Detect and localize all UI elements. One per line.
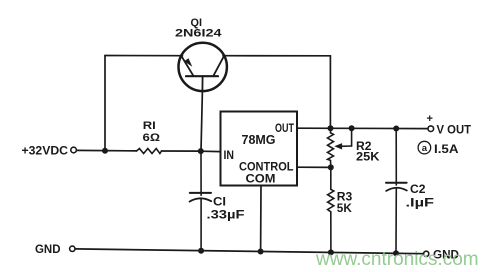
label: V OUT <box>437 125 472 137</box>
potentiometer R2 (zigzag body and leads) <box>328 128 334 167</box>
label: C1 <box>213 197 226 209</box>
label: 5K <box>337 203 353 215</box>
wire: input rail from terminal to R1 <box>77 149 137 152</box>
regulator U1 78MG box <box>221 112 298 186</box>
terminal: GND right <box>424 251 429 256</box>
svg-text:C2: C2 <box>410 184 426 196</box>
svg-text:OUT: OUT <box>275 123 294 135</box>
node: C1 ground junction <box>198 248 204 254</box>
svg-text:+32VDC: +32VDC <box>22 145 69 157</box>
label: R3 <box>337 191 353 203</box>
svg-text:RI: RI <box>143 120 156 132</box>
node: control junction (R2 bottom / R3 top) <box>328 164 334 170</box>
label: R1 <box>143 120 156 132</box>
label: COM pin <box>246 171 276 185</box>
capacitor C2 (lead and plates) <box>386 129 407 253</box>
svg-text:IN: IN <box>224 150 235 162</box>
svg-text:.IµF: .IµF <box>406 197 435 209</box>
label: 25K <box>356 152 380 164</box>
svg-text:R3: R3 <box>337 191 353 203</box>
label: Q1 <box>191 17 203 29</box>
label: 2N6124 <box>175 28 223 40</box>
node: OUT rail / R2 top / collector junction <box>328 125 334 131</box>
wire: COM pin drop to ground rail <box>260 186 262 252</box>
svg-text:25K: 25K <box>356 152 380 164</box>
node: wiper tap on OUT rail <box>349 125 355 131</box>
transistor Q1 (PNP pass transistor) <box>179 43 227 91</box>
terminal: V OUT <box>428 126 434 132</box>
wire: ground rail <box>75 249 424 254</box>
label: 6 ohm <box>143 132 161 144</box>
label: CONTROL pin <box>239 162 294 174</box>
svg-text:6Ω: 6Ω <box>143 132 161 144</box>
resistor R1 <box>137 149 162 154</box>
watermark www.cntronics.com <box>315 249 479 270</box>
svg-text:78MG: 78MG <box>242 133 276 147</box>
svg-text:.33µF: .33µF <box>207 210 245 222</box>
capacitor C1 (lead and plates) <box>190 151 212 251</box>
terminal: GND left <box>70 246 75 251</box>
svg-text:5K: 5K <box>337 203 353 215</box>
wiper arrow of R2 <box>334 128 351 149</box>
label: IN pin <box>224 150 235 162</box>
symbol: circled-a current rating <box>418 141 431 154</box>
wire: rail from junction to IN pin <box>201 150 221 152</box>
wire: collector top rail (right) <box>223 55 330 57</box>
svg-text:GND: GND <box>35 244 61 256</box>
label: 78MG <box>242 133 276 147</box>
svg-text:+: + <box>427 113 433 125</box>
resistor R3 (body and leads) <box>328 167 334 251</box>
wire: rail from R1 to base/C1 junction <box>162 150 201 152</box>
wire: emitter top rail (left) <box>105 55 183 57</box>
svg-text:CI: CI <box>213 197 226 209</box>
terminal: +32VDC input <box>71 147 77 153</box>
svg-text:I.5A: I.5A <box>434 144 459 156</box>
label: .1uF <box>406 197 435 209</box>
wire: CONTROL pin to R2/R3 column <box>297 166 331 168</box>
node: C2 top junction on OUT rail <box>393 126 399 132</box>
svg-text:www.cntronics.com: www.cntronics.com <box>315 249 479 270</box>
svg-text:2N6I24: 2N6I24 <box>175 28 223 40</box>
label: + polarity at V OUT <box>427 113 433 125</box>
label: GND right <box>433 249 459 261</box>
label: GND left <box>35 244 61 256</box>
wire: left vertical drop from top rail to input rail <box>104 56 106 151</box>
node: COM ground junction <box>258 249 264 255</box>
node: C2 ground junction <box>393 250 399 256</box>
label: OUT pin <box>275 123 294 135</box>
node: base / C1 junction on input rail <box>198 148 204 154</box>
wire: OUT rail to V OUT terminal <box>297 127 428 129</box>
label: R2 <box>356 141 372 153</box>
wire: base lead down to input rail <box>201 91 202 151</box>
svg-text:a: a <box>422 143 428 154</box>
node: R3 ground junction <box>328 249 334 255</box>
svg-text:V OUT: V OUT <box>437 125 472 137</box>
label: C2 <box>410 184 426 196</box>
wire: collector drop to OUT rail <box>329 56 331 128</box>
node: junction of left drop with input rail <box>102 148 108 154</box>
svg-text:COM: COM <box>246 171 276 185</box>
label: .33uF <box>207 210 245 222</box>
label: +32VDC <box>22 145 69 157</box>
label: 1.5A <box>434 144 459 156</box>
